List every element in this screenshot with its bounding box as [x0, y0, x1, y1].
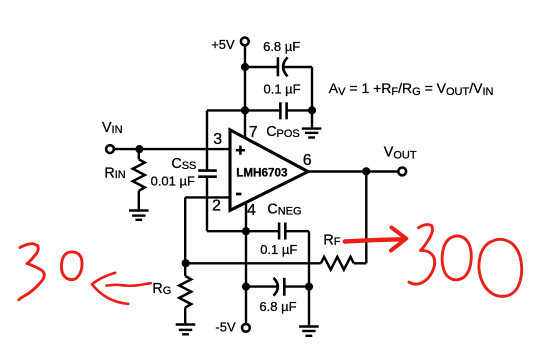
red digit 0 (left, value 30) [61, 252, 82, 280]
svg-text:4: 4 [247, 202, 256, 219]
ground Rin [129, 211, 149, 220]
junction dot pin4/Cneg [242, 227, 250, 235]
terminal Vin [106, 145, 114, 153]
junction dot +5V/6.8uF [241, 63, 249, 71]
wire 6.8uF top left lead [245, 66, 278, 68]
svg-text:6.8 µF: 6.8 µF [259, 299, 296, 314]
red digit 0 second (right) [479, 239, 522, 296]
svg-text:+5V: +5V [211, 37, 235, 52]
red arrow left (pointing at Rg) [92, 273, 115, 285]
wire right rail bottom [308, 231, 310, 325]
wire pin 2 horizontal [185, 196, 230, 198]
svg-text:7: 7 [249, 124, 258, 141]
wire Rg bottom lead [184, 308, 186, 324]
ground Cpos [302, 129, 322, 138]
resistor Rf [321, 257, 354, 270]
junction dot output/feedback [362, 167, 370, 175]
junction dot right rail 6.8uF [305, 283, 313, 291]
wire Css branch upper [206, 110, 208, 169]
wire feedback vertical [365, 171, 367, 263]
junction dot Vin/Rin [135, 145, 143, 153]
wire Rf right lead [354, 262, 366, 264]
red digit 3 (right, value 300) [409, 225, 435, 285]
svg-text:3: 3 [213, 131, 222, 148]
terminal Vout [398, 168, 406, 176]
wire Cneg row left [207, 230, 278, 232]
svg-text:LMH6703: LMH6703 [236, 166, 288, 179]
red annotation group [19, 225, 522, 304]
capacitor Css 0.01uF [198, 171, 217, 177]
terminal -5V [242, 324, 250, 332]
wire +5V rail down to pin 7 [244, 45, 246, 138]
wire Rg top lead [184, 263, 186, 276]
wire 0.1uF top right lead [287, 109, 312, 111]
wire Rin bottom lead [138, 191, 140, 210]
svg-text:AV = 1 +RF/RG = VOUT/VIN: AV = 1 +RF/RG = VOUT/VIN [329, 80, 494, 98]
resistor Rin [133, 159, 145, 190]
red arrow right (pointing from Rf) [345, 239, 401, 241]
wire Css branch lower [206, 178, 208, 231]
svg-text:2: 2 [212, 198, 221, 215]
ground Rg [176, 325, 196, 335]
svg-text:-5V: -5V [215, 320, 236, 335]
wire pin 4 / -5V rail [245, 203, 247, 324]
wire pin 2 down to Rg node [184, 197, 186, 263]
junction dot Rg/feedback [182, 259, 190, 267]
svg-text:0.1 µF: 0.1 µF [260, 242, 297, 257]
ground right rail bottom [299, 327, 319, 336]
svg-text:0.01 µF: 0.01 µF [151, 174, 195, 189]
op-amp U1 LMH6703 [230, 130, 308, 211]
red digit 3 (left, value 30) [19, 244, 44, 300]
wire right rail top [311, 67, 313, 128]
svg-text:6: 6 [303, 152, 312, 169]
junction dot right rail 0.1uF [308, 106, 316, 114]
junction dot +5V/0.1uF [241, 106, 249, 114]
wire Rin top lead [138, 149, 140, 159]
wire 6.8uF bottom left lead [246, 285, 278, 287]
wire Cneg row right [286, 230, 309, 232]
wire 6.8uF bottom right lead [284, 285, 309, 287]
wire 6.8uF top right lead [284, 66, 312, 68]
terminal +5V [241, 38, 249, 46]
capacitor Cneg 0.1uF bottom [279, 223, 285, 240]
svg-text:0.1 µF: 0.1 µF [264, 81, 301, 96]
capacitor C 6.8uF top (polarized) [278, 57, 288, 76]
wire 0.1uF top left lead [207, 109, 280, 111]
resistor Rg [179, 276, 191, 308]
wire Vin to pin 3 [114, 148, 231, 150]
wire output [308, 170, 398, 172]
capacitor C 6.8uF bottom (polarized) [274, 278, 285, 296]
capacitor Cpos 0.1uF top [280, 102, 286, 119]
svg-text:6.8 µF: 6.8 µF [263, 39, 300, 54]
junction dot -5V/6.8uF [242, 283, 250, 291]
wire feedback horizontal [185, 262, 321, 264]
red digit 0 first (right) [442, 236, 471, 280]
